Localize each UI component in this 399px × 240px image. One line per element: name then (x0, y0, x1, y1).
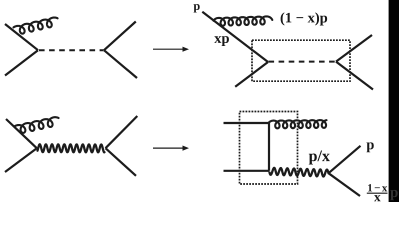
wire: TR lower-left quark line (235, 62, 268, 87)
dotted box around BR splitting (240, 112, 298, 185)
wire: BL outgoing quark lower line (106, 148, 137, 176)
wire: TR incoming quark line from p to vertex (202, 12, 268, 62)
label p/x (309, 151, 330, 165)
label (1 - x)p (281, 12, 328, 25)
label xp (214, 36, 229, 46)
propagator: TL dashed scalar line (39, 49, 104, 51)
wire: BR lower quark horizontal line (224, 170, 270, 172)
label p (dim, on black strip) (390, 190, 398, 200)
propagator: TR dashed scalar line (269, 61, 337, 63)
label fraction (1-x)/x denominator (374, 195, 381, 201)
wire: BR outgoing quark upper line to p (329, 146, 361, 173)
gluon TR emitted (1-x)p (214, 16, 273, 25)
propagator: BR wavy photon line (269, 168, 328, 177)
gluon BL radiated from upper quark line (14, 117, 58, 133)
wire: TR outgoing quark upper line (336, 35, 372, 62)
wire: BL incoming quark upper line (6, 119, 37, 148)
wire: TL outgoing quark upper line (104, 22, 136, 51)
fraction bar of (1-x)/x (367, 192, 388, 194)
wire: BL outgoing quark upper line (106, 116, 138, 148)
wire: TL incoming quark lower line (5, 50, 38, 75)
wire: TL outgoing quark lower line (104, 50, 137, 78)
wire: BR vertical quark line (268, 122, 270, 171)
wire: BR upper quark horizontal line (224, 122, 270, 124)
arrow between top diagrams (153, 48, 184, 50)
gluon BR emitted horizontal (269, 120, 327, 128)
gluon TL radiated from upper quark line (14, 18, 58, 34)
black slide-edge strip (389, 0, 399, 202)
wire: TL incoming quark upper line (5, 24, 38, 50)
propagator: BL wavy photon line (37, 144, 104, 152)
dotted box around TR hard subprocess (252, 40, 350, 81)
wire: BR outgoing quark lower line (329, 173, 361, 196)
arrow between bottom diagrams (153, 147, 184, 149)
label p (BR outgoing momentum) (366, 142, 373, 152)
wire: BL incoming quark lower line (5, 148, 37, 172)
label fraction (1-x)/x numerator (368, 184, 387, 191)
wire: TR outgoing quark lower line (336, 62, 373, 90)
label p (TR incoming momentum) (194, 4, 200, 12)
